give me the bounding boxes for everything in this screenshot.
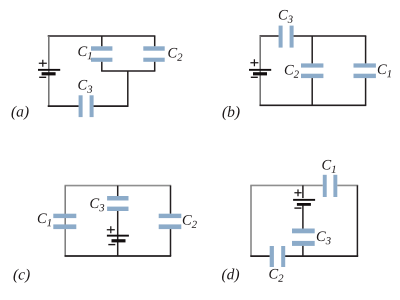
capacitor C2 (b)	[301, 63, 323, 78]
capacitor C3 (c)	[107, 196, 128, 211]
wire C3 bottom stub (d)	[302, 246, 304, 256]
capacitor C2 (a)	[143, 46, 164, 62]
wire middle (a)	[101, 70, 155, 72]
panel label (d)	[222, 269, 239, 283]
wire bottom-left (d)	[250, 255, 269, 257]
capacitor C1 (a)	[91, 46, 112, 62]
wire bottom-right (a)	[94, 105, 129, 107]
wire battery top stub (d)	[302, 185, 304, 198]
wire C2 top stub (a)	[154, 36, 156, 46]
label C2 (c)	[183, 215, 197, 228]
wire top-right (b)	[294, 35, 367, 37]
panel label (a)	[12, 106, 29, 120]
label C3 (d)	[317, 231, 331, 244]
wire middle-down (a)	[127, 71, 129, 106]
wire C2 bottom stub (a)	[154, 62, 156, 71]
capacitor C1 (c)	[53, 214, 76, 229]
wire C2 bottom stub (b)	[311, 78, 313, 105]
capacitor C3 (b)	[279, 26, 294, 48]
label C3 (a)	[78, 80, 92, 93]
wire left upper (b)	[259, 36, 261, 106]
wire battery-C3 (d)	[302, 206, 304, 229]
label C2 (d)	[269, 269, 283, 282]
wire C1 top stub (b)	[365, 36, 367, 63]
wire C1 top stub (a)	[101, 36, 103, 46]
wire C2 top stub (c)	[170, 186, 172, 214]
capacitor C1 (d)	[323, 175, 338, 197]
wire left (d)	[250, 185, 252, 256]
label C1 (d)	[322, 160, 335, 173]
capacitor C2 (d)	[270, 246, 286, 267]
wire top-left (b)	[260, 35, 279, 37]
capacitor C1 (b)	[354, 63, 376, 78]
label C2 (a)	[168, 48, 182, 61]
capacitor C2 (c)	[159, 214, 182, 229]
wire left (c)	[64, 186, 66, 256]
wire top-right (d)	[337, 184, 358, 186]
wire bottom (b)	[260, 104, 367, 106]
wire left (a)	[48, 36, 50, 107]
capacitor C3 (d)	[292, 229, 315, 246]
battery (c)	[107, 226, 129, 244]
wire bottom-right (d)	[285, 255, 358, 257]
battery (d)	[293, 189, 315, 208]
battery (a)	[38, 60, 60, 78]
label C2 (b)	[285, 65, 299, 78]
label C3 (c)	[90, 198, 104, 211]
wire C2 top stub (b)	[311, 36, 313, 63]
wire C3 top stub (c)	[117, 186, 119, 196]
capacitor C3 (a)	[79, 95, 94, 117]
wire top-left (d)	[250, 184, 322, 186]
wire bottom-left (a)	[48, 105, 79, 107]
wire top (c)	[65, 185, 172, 187]
wire C1 bottom stub (b)	[365, 78, 367, 105]
wire middle (c)	[117, 211, 119, 256]
wire right (d)	[356, 185, 358, 256]
label C1 (a)	[78, 46, 91, 59]
wire C2 bottom stub (c)	[170, 229, 172, 256]
battery (b)	[249, 59, 271, 77]
panel label (c)	[14, 269, 30, 283]
label C1 (c)	[38, 213, 51, 226]
wire bottom (c)	[65, 255, 172, 257]
wire C1 bottom stub (a)	[101, 62, 103, 71]
label C3 (b)	[279, 10, 293, 23]
label C1 (b)	[378, 64, 391, 77]
wire top (a)	[48, 35, 156, 37]
panel label (b)	[223, 106, 240, 120]
